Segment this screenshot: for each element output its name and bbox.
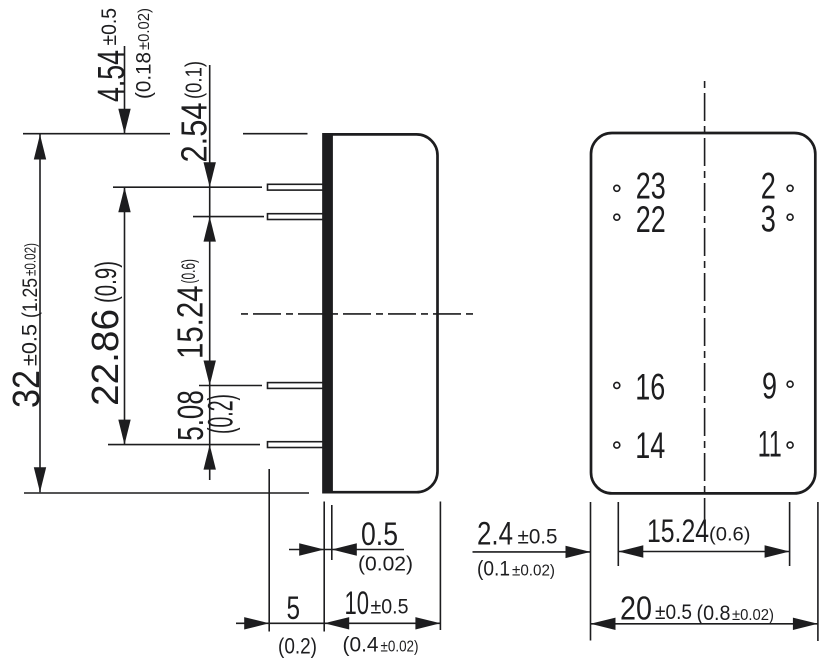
- pin 16 hole: [614, 382, 620, 388]
- svg-text:(0.1): (0.1): [181, 61, 207, 99]
- arrow 32 bottom: [34, 467, 46, 492]
- pin 2 hole: [787, 185, 793, 191]
- svg-text:14: 14: [635, 425, 665, 466]
- dimension line 20: [591, 623, 818, 625]
- extension line top edge right part: [243, 133, 308, 135]
- svg-text:2.54: 2.54: [174, 103, 215, 163]
- extension line bar right: [331, 505, 333, 560]
- svg-text:(0.6): (0.6): [709, 524, 751, 546]
- extension line bottom view pin col right: [789, 502, 791, 566]
- arrow 0.5 left: [299, 543, 324, 555]
- extension line bottom view body right: [817, 502, 819, 641]
- arrow 2.54 down: [204, 162, 216, 187]
- svg-text:±0.5: ±0.5: [97, 8, 121, 46]
- pin 23 hole: [614, 185, 620, 191]
- dimension line 2.4: [473, 551, 591, 553]
- svg-text:±0.5: ±0.5: [371, 596, 409, 619]
- svg-text:15.24: 15.24: [647, 513, 709, 549]
- svg-text:11: 11: [758, 424, 782, 465]
- arrow 10 left: [324, 617, 349, 629]
- svg-text:(0.8: (0.8: [697, 602, 731, 625]
- arrow 15.24 bottom down: [204, 361, 216, 386]
- svg-text:4.54: 4.54: [91, 50, 133, 102]
- side view body: [324, 134, 438, 492]
- svg-text:(0.2): (0.2): [278, 634, 317, 659]
- svg-text:10: 10: [345, 585, 370, 621]
- horizontal centerline side view: [241, 313, 477, 315]
- bottom view body: [591, 133, 815, 493]
- svg-text:(0.1: (0.1: [477, 558, 510, 581]
- pin row 3 side: [268, 383, 325, 389]
- pin 11 hole: [787, 442, 793, 448]
- arrow 5.08 up: [204, 445, 216, 470]
- arrow 15.24 top up: [204, 217, 216, 242]
- dimension line 4.54: [124, 46, 126, 134]
- arrow 10 right: [415, 617, 440, 629]
- extension line pin row 1: [113, 186, 262, 188]
- svg-text:±0.02): ±0.02): [512, 563, 555, 580]
- extension line pin row 3: [199, 385, 262, 387]
- svg-text:(1.25: (1.25: [18, 278, 42, 318]
- svg-text:±0.02): ±0.02): [136, 8, 153, 50]
- svg-text:15.24: 15.24: [170, 286, 211, 360]
- svg-text:3: 3: [761, 199, 776, 240]
- svg-text:32: 32: [6, 370, 48, 408]
- extension line pin tip: [268, 469, 270, 632]
- pin 22 hole: [614, 214, 620, 220]
- dimension line 0.5: [289, 549, 404, 551]
- svg-text:±0.5: ±0.5: [518, 526, 558, 549]
- svg-text:20: 20: [620, 590, 652, 627]
- arrow 0.5 right: [332, 543, 357, 555]
- arrow 2.4: [566, 546, 591, 558]
- svg-text:5: 5: [287, 590, 301, 626]
- arrow 20 right: [793, 618, 818, 630]
- arrow 4.54 down: [118, 109, 130, 134]
- extension line top edge left part: [23, 133, 170, 135]
- dimension line 15.24 bottom view: [618, 551, 789, 553]
- extension line bar left: [323, 502, 325, 632]
- pin 9 hole: [787, 381, 793, 387]
- svg-text:±0.5: ±0.5: [18, 324, 42, 366]
- pin 14 hole: [614, 442, 620, 448]
- extension line bottom view pin col left: [617, 502, 619, 566]
- svg-text:±0.02): ±0.02): [381, 639, 419, 656]
- svg-text:±0.5: ±0.5: [655, 601, 692, 624]
- svg-text:16: 16: [635, 367, 665, 408]
- svg-text:(0.18: (0.18: [133, 52, 156, 99]
- svg-text:±0.02): ±0.02): [23, 243, 40, 276]
- side view mounting face thick bar: [324, 133, 333, 493]
- arrow 32 top: [34, 135, 46, 160]
- extension line bottom view body left: [590, 502, 592, 641]
- arrow 22.86 bottom: [118, 420, 130, 445]
- svg-text:(0.02): (0.02): [358, 554, 413, 576]
- svg-text:2.4: 2.4: [477, 516, 513, 552]
- extension line bottom edge: [24, 492, 309, 494]
- arrow 15.24 left: [618, 545, 643, 557]
- svg-text:(0.9): (0.9): [90, 261, 123, 303]
- svg-text:22.86: 22.86: [85, 309, 127, 406]
- extension line pin row 4: [108, 444, 260, 446]
- svg-text:(0.6): (0.6): [178, 259, 200, 284]
- svg-text:(0.2): (0.2): [202, 394, 241, 434]
- pin row 2 side: [268, 214, 325, 220]
- svg-text:±0.02): ±0.02): [732, 607, 774, 624]
- dimension line 32: [39, 135, 41, 493]
- dimension line 2.54 15.24 5.08 chain: [209, 65, 211, 480]
- pin row 4 side: [268, 442, 325, 448]
- svg-text:22: 22: [636, 199, 666, 240]
- extension line pin row 2: [193, 216, 264, 218]
- vertical centerline bottom view: [704, 81, 706, 531]
- svg-text:(0.4: (0.4: [343, 634, 379, 657]
- dimension line 22.86: [124, 187, 126, 444]
- arrow 20 left: [591, 618, 616, 630]
- extension line body right: [439, 502, 441, 631]
- pin row 1 side: [268, 184, 325, 190]
- svg-text:9: 9: [762, 366, 777, 407]
- arrow 22.86 top: [118, 187, 130, 212]
- pin 3 hole: [787, 214, 793, 220]
- dimension line 5 and 10: [236, 622, 440, 624]
- arrow 15.24 right: [765, 545, 790, 557]
- arrow 5 left: [244, 617, 269, 629]
- svg-text:0.5: 0.5: [361, 516, 398, 552]
